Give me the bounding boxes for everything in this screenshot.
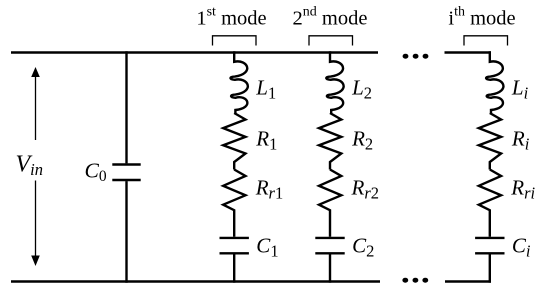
svg-text:Ci: Ci: [512, 233, 531, 260]
svg-text:Rr2: Rr2: [351, 175, 380, 202]
svg-text:C2: C2: [352, 233, 374, 260]
svg-text:ith mode: ith mode: [448, 5, 515, 30]
voltage arrow Vin (double-headed, gap at label): [35, 75, 37, 257]
svg-text:C0: C0: [85, 158, 107, 185]
resistor Rri: [479, 170, 501, 237]
capacitor C0: [112, 51, 140, 282]
inductor L1: [230, 51, 247, 113]
capacitor C2: [315, 238, 344, 283]
ellipsis dots (top bus continuation): [403, 54, 429, 59]
capacitor Ci: [475, 238, 504, 283]
bracket: 1st mode: [213, 36, 257, 46]
svg-text:Rr1: Rr1: [255, 175, 284, 202]
arrowhead down: [31, 256, 40, 267]
capacitor C1: [220, 238, 249, 283]
arrowhead up: [31, 67, 40, 77]
svg-text:2nd mode: 2nd mode: [293, 5, 368, 30]
resistor Rr1: [223, 170, 245, 237]
resistor Ri: [479, 113, 501, 170]
wire: top bus (right section feeding i-th branch): [445, 51, 492, 53]
wire: bottom bus (left section): [11, 280, 380, 282]
svg-text:C1: C1: [256, 233, 278, 260]
inductor L2: [326, 51, 343, 113]
bracket: 2nd mode: [309, 36, 353, 46]
svg-text:1st mode: 1st mode: [196, 5, 266, 30]
svg-text:Vin: Vin: [16, 152, 44, 179]
inductor Li: [486, 51, 503, 113]
ellipsis dots (bottom bus continuation): [402, 278, 428, 283]
svg-text:L1: L1: [255, 75, 276, 102]
svg-text:L2: L2: [351, 75, 372, 102]
svg-text:R1: R1: [255, 126, 277, 153]
svg-text:R2: R2: [351, 126, 373, 153]
svg-text:Ri: Ri: [511, 126, 530, 153]
resistor R1: [223, 113, 245, 170]
wire: bottom bus (right section from i-th branch): [445, 280, 491, 282]
svg-text:Rri: Rri: [510, 175, 535, 202]
resistor Rr2: [319, 170, 341, 237]
svg-text:Li: Li: [511, 75, 529, 102]
bracket: ith mode: [464, 36, 508, 46]
wire: top bus (left section): [11, 51, 378, 53]
resistor R2: [319, 113, 341, 170]
